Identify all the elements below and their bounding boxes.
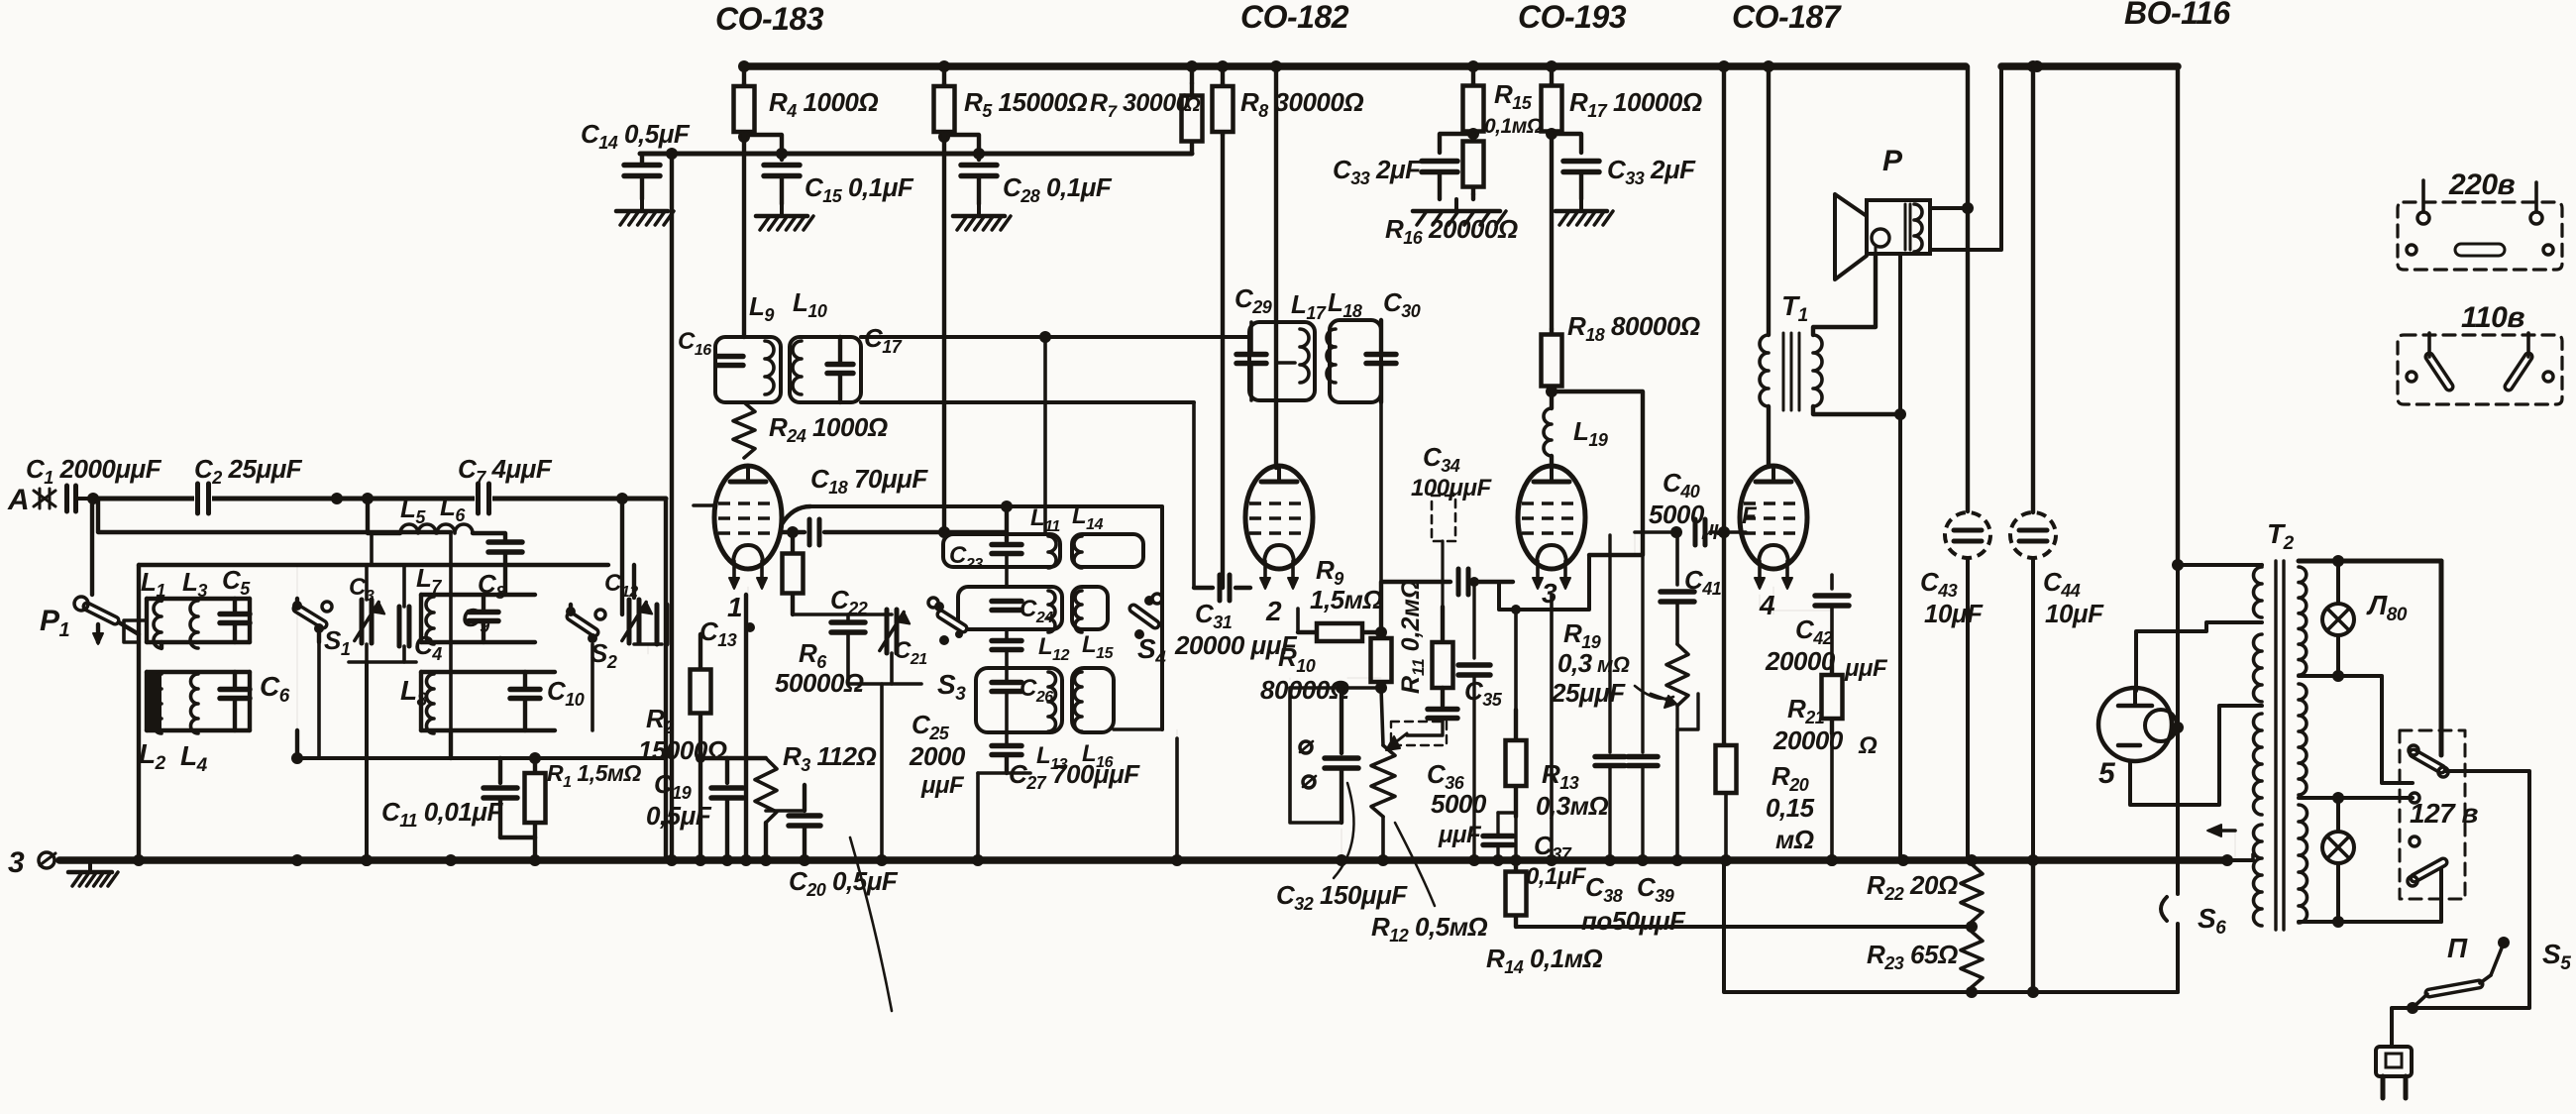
capacitor C34 coupling bbox=[1458, 569, 1513, 595]
wire top B+ bus bbox=[744, 62, 1966, 70]
wire antenna bus bbox=[93, 497, 666, 501]
svg-text:R14 0,1мΩ: R14 0,1мΩ bbox=[1486, 944, 1602, 977]
wire 300 rail bbox=[295, 730, 299, 758]
wire sec mid tap bbox=[2299, 792, 2413, 804]
wire C4 stub bbox=[402, 565, 406, 607]
capacitor C30 bbox=[1366, 320, 1396, 402]
svg-text:C2 25μμF: C2 25μμF bbox=[194, 454, 303, 488]
label P1 bbox=[40, 605, 70, 641]
junction bus end bbox=[2221, 854, 2233, 866]
label R9 value bbox=[1310, 585, 1382, 614]
wire pointer C20 bbox=[850, 837, 892, 1011]
junction bus x340 bbox=[331, 493, 343, 504]
svg-text:3: 3 bbox=[8, 846, 25, 879]
wire L2 tank top rail bbox=[147, 670, 250, 674]
label C17 bbox=[864, 323, 903, 357]
svg-text:15000Ω: 15000Ω bbox=[638, 735, 727, 765]
resistor R5 bbox=[934, 83, 955, 135]
label L2 bbox=[139, 738, 166, 774]
label T2 bbox=[2267, 518, 2295, 554]
inductor L11 bbox=[1048, 536, 1056, 568]
resistor R16 bbox=[1463, 134, 1484, 194]
capacitor C2 bbox=[194, 482, 212, 515]
wire L1 tank top rail bbox=[147, 597, 250, 601]
inductor L6 bbox=[437, 524, 473, 533]
wire T1 sec bottom bbox=[1813, 406, 1900, 414]
junction line3 bbox=[1966, 986, 2039, 998]
resistor R12 zigzag bbox=[1371, 688, 1395, 860]
capacitor C28 bbox=[961, 148, 997, 204]
wire heater line3 bbox=[1724, 860, 2178, 992]
wire C41 to bus bbox=[1675, 729, 1679, 860]
label C21 bbox=[894, 637, 927, 668]
wire bias rail bbox=[1290, 682, 1387, 694]
transformer T2 secondary top bbox=[2299, 561, 2307, 675]
svg-text:1: 1 bbox=[727, 592, 742, 622]
junction grid line R6 bbox=[787, 526, 799, 538]
ground C33b bbox=[1556, 199, 1613, 225]
capacitor C43 bbox=[1945, 511, 1990, 860]
junction R18 bottom bbox=[1546, 386, 1557, 397]
wire R4 down to L9 bbox=[742, 135, 746, 337]
svg-text:C28 0,1μF: C28 0,1μF bbox=[1003, 172, 1113, 206]
inductor L13 bbox=[1048, 672, 1056, 731]
label C35 bbox=[1464, 676, 1503, 710]
resistor R2 bbox=[691, 634, 711, 748]
inductor L14 bbox=[1074, 536, 1082, 568]
wire C3 stub bbox=[365, 565, 369, 600]
label R2 value bbox=[638, 735, 727, 765]
wire C22 bottom to bus bbox=[880, 684, 884, 860]
transformer T2 primary bot bbox=[2254, 825, 2263, 926]
junction R2 join bbox=[696, 753, 705, 763]
svg-text:Ω: Ω bbox=[1858, 732, 1878, 759]
loudspeaker P horn bbox=[1835, 194, 1867, 279]
label R4 1000 bbox=[769, 87, 878, 121]
junction top bus bbox=[1546, 60, 1557, 72]
wire tube2 plate tap bbox=[1276, 361, 1295, 365]
label L8 bbox=[400, 675, 428, 711]
label C3 bbox=[349, 574, 375, 605]
capacitor C39 bbox=[1628, 555, 1658, 860]
wire row3 bottom bbox=[1114, 727, 1162, 731]
label CO-183 bbox=[715, 1, 824, 37]
lamp2 lead bbox=[2336, 798, 2340, 831]
tube U4 CO-187 bbox=[1740, 466, 1807, 589]
node coilbox-bus join bbox=[138, 762, 140, 764]
wire tube2 plate rail bbox=[1274, 66, 1278, 468]
inductor L9 tank box bbox=[715, 337, 781, 402]
wire U4 cathode bbox=[1760, 587, 1832, 614]
wire coil box left bbox=[137, 565, 141, 860]
label CO-182 bbox=[1240, 0, 1349, 35]
label R2 bbox=[646, 704, 674, 737]
inductor L5 bbox=[400, 524, 436, 533]
wire R7 feed bbox=[1190, 66, 1194, 83]
ground C15 bbox=[756, 204, 813, 230]
wire coil box top bbox=[139, 563, 608, 567]
label T1 bbox=[1781, 290, 1808, 326]
resistor R23 zigzag bbox=[1961, 932, 1983, 992]
label C19 bbox=[654, 769, 692, 803]
wire C18 on to tanks bbox=[944, 530, 1007, 534]
label S1 bbox=[324, 625, 351, 659]
svg-text:R11 0,2мΩ: R11 0,2мΩ bbox=[1397, 580, 1428, 694]
label C36 bbox=[1427, 759, 1465, 793]
tube U3 CO-193 bbox=[1518, 466, 1585, 589]
transformer T1 secondary bbox=[1813, 335, 1822, 406]
inductor L8 bbox=[421, 672, 434, 733]
label L9 bbox=[749, 291, 774, 325]
svg-text:3: 3 bbox=[1542, 578, 1557, 609]
capacitor C17 bbox=[827, 337, 853, 402]
svg-text:10μF: 10μF bbox=[2045, 599, 2104, 628]
label pin1 bbox=[727, 592, 742, 622]
tube U2 CO-182 bbox=[1245, 466, 1313, 589]
label Л80 bbox=[2366, 590, 2408, 625]
ground C33a/R16 bbox=[1413, 199, 1506, 225]
capacitor C32 bbox=[1325, 688, 1358, 823]
svg-text:по50μμF: по50μμF bbox=[1581, 906, 1686, 936]
svg-text:C33 2μF: C33 2μF bbox=[1333, 155, 1422, 188]
svg-text:100μμF: 100μμF bbox=[1411, 475, 1492, 501]
wire R17 down to R18 bbox=[1550, 134, 1554, 329]
wire ground bus bbox=[59, 856, 2227, 864]
label C2 bbox=[194, 454, 303, 488]
resistor R20 bbox=[1716, 745, 1737, 793]
wire C3 drop to bus bbox=[361, 662, 373, 866]
label R6 bbox=[799, 638, 827, 672]
svg-text:R4 1000Ω: R4 1000Ω bbox=[769, 87, 878, 121]
transformer T1 primary bbox=[1760, 327, 1769, 406]
resistor R13 bbox=[1506, 710, 1527, 817]
svg-text:10μF: 10μF bbox=[1924, 599, 1984, 628]
label R11 rotated bbox=[1397, 580, 1428, 694]
switch S3 bbox=[928, 598, 963, 645]
wire C40 line bbox=[1635, 530, 1676, 534]
label C18 70 bbox=[810, 464, 928, 498]
label pin4 bbox=[1759, 590, 1775, 620]
wire L7 box bottom bbox=[421, 640, 535, 644]
svg-text:μμF: μμF bbox=[920, 772, 965, 799]
junction C40 node bbox=[1718, 526, 1730, 538]
transformer T2 secondary mid bbox=[2299, 684, 2307, 795]
svg-text:F: F bbox=[1742, 502, 1758, 529]
svg-text:μμF: μμF bbox=[1844, 655, 1888, 682]
svg-text:R12 0,5мΩ: R12 0,5мΩ bbox=[1371, 912, 1487, 946]
variable capacitor C21 bbox=[848, 610, 921, 684]
wire R10 tap bbox=[1380, 632, 1382, 644]
dashes pot box bbox=[1391, 722, 1447, 745]
svg-text:0,1мΩ: 0,1мΩ bbox=[1484, 115, 1543, 138]
wire R13 to bus bbox=[1514, 817, 1517, 860]
resistor R4 bbox=[734, 83, 755, 135]
label R17 10000 bbox=[1569, 87, 1702, 121]
capacitor C29 box bbox=[1249, 322, 1315, 400]
capacitor C42 bbox=[1815, 575, 1849, 660]
wire tube5 anode to T2 bbox=[2136, 622, 2262, 691]
junction R5 bottom bbox=[938, 131, 950, 143]
svg-text:4: 4 bbox=[1759, 590, 1775, 620]
label R15 value bbox=[1484, 115, 1543, 138]
transformer T2 primary s3 bbox=[2254, 714, 2263, 815]
svg-text:П: П bbox=[2447, 933, 2468, 963]
inductor L9 bbox=[765, 341, 774, 394]
label П bbox=[2447, 933, 2468, 963]
label R20 bbox=[1771, 761, 1809, 795]
junction bus x628 bbox=[616, 493, 628, 504]
label pin3 bbox=[1542, 578, 1557, 609]
inductor L18 bbox=[1327, 329, 1336, 383]
capacitor C34 trimmer dashed bbox=[1411, 442, 1492, 609]
loudspeaker voice coil bbox=[1872, 229, 1889, 256]
wire pointer R19 bbox=[1635, 686, 1673, 699]
label C40 bbox=[1663, 468, 1700, 501]
pot wiper arrow bbox=[1386, 733, 1407, 750]
transformer T2 core bbox=[2276, 561, 2284, 930]
wire C32 to bus bbox=[1341, 829, 1342, 860]
svg-text:0,1μF: 0,1μF bbox=[1526, 863, 1587, 890]
wire C44 rail lower bbox=[2031, 860, 2035, 992]
svg-text:CO-187: CO-187 bbox=[1732, 0, 1843, 35]
wire lamp2 down bbox=[2336, 864, 2340, 922]
loudspeaker xfmr coil bbox=[1905, 204, 1922, 252]
switch blade bottom bbox=[2408, 862, 2443, 886]
wire U3 to bus bbox=[1550, 595, 1554, 860]
label R5 15000 bbox=[964, 87, 1087, 121]
svg-text:P: P bbox=[1882, 145, 1903, 177]
label R21 value bbox=[1772, 725, 1878, 759]
lamp Л2 bbox=[2322, 832, 2354, 863]
wire L8 box top bbox=[421, 670, 555, 674]
wire left tanks to P1 bbox=[124, 620, 147, 642]
label C15 bbox=[805, 172, 914, 206]
inductor L14 box bbox=[1072, 534, 1143, 567]
label C8 bbox=[478, 569, 505, 603]
label C33a bbox=[1333, 155, 1422, 188]
tube U1 CO-183 bbox=[714, 466, 782, 589]
terminal A bbox=[7, 484, 55, 516]
transformer T2 primary s2 bbox=[2254, 634, 2263, 702]
inductor L15 box bbox=[1072, 587, 1108, 629]
junction R17 bottom bbox=[1546, 128, 1557, 140]
variable capacitor C12 bbox=[622, 600, 652, 643]
label CO-187 bbox=[1732, 0, 1843, 35]
svg-text:Ω: Ω bbox=[1184, 94, 1201, 116]
capacitor C44 bbox=[2010, 512, 2056, 860]
junction top bus bbox=[1217, 60, 1229, 72]
label C16 bbox=[678, 328, 711, 359]
wire R8 feed bbox=[1221, 66, 1225, 83]
resistor R8 bbox=[1213, 83, 1234, 135]
switch contact mid2 bbox=[2410, 836, 2419, 846]
ground C28 bbox=[953, 204, 1011, 230]
wire P1 stub2 bbox=[119, 622, 139, 634]
socket 220 slot bbox=[2407, 244, 2553, 256]
svg-text:0,15: 0,15 bbox=[1766, 793, 1815, 823]
label C37 bbox=[1534, 831, 1572, 864]
label C31 value bbox=[1174, 630, 1298, 660]
svg-text:BO-116: BO-116 bbox=[2124, 0, 2230, 31]
junction L5 drop bbox=[362, 493, 374, 504]
wire L2 tank bottom rail bbox=[147, 728, 250, 732]
resistor R7 bbox=[1182, 83, 1203, 154]
label L19 bbox=[1573, 416, 1608, 450]
wire C12 bottom rail bbox=[634, 644, 662, 654]
label L3 bbox=[182, 567, 207, 601]
capacitor C9 bbox=[469, 595, 498, 642]
label C14 bbox=[581, 119, 691, 153]
capacitor C40 bbox=[1695, 519, 1746, 545]
label C27 bbox=[1009, 759, 1140, 793]
label R10 bbox=[1278, 642, 1316, 676]
label C28 bbox=[1003, 172, 1113, 206]
inductor L10 tank box bbox=[790, 337, 861, 402]
wire S2 lower contact drop bbox=[590, 644, 594, 730]
resistor R6 bbox=[783, 532, 804, 614]
svg-text:R7 30000: R7 30000 bbox=[1090, 89, 1190, 121]
wire tap jog bbox=[2338, 676, 2413, 783]
wire T1 primary rail bbox=[1767, 66, 1771, 335]
label R14 bbox=[1486, 944, 1602, 977]
label L4 bbox=[180, 740, 208, 776]
svg-text:0,3: 0,3 bbox=[1557, 648, 1593, 678]
svg-text:220в: 220в bbox=[2448, 168, 2516, 201]
power plug bbox=[2376, 1047, 2412, 1098]
ground main bbox=[68, 860, 118, 886]
label L6 bbox=[440, 492, 466, 525]
terminal pickup1 bbox=[1300, 741, 1313, 753]
junction top bus bbox=[2031, 60, 2043, 72]
junction C40 right bbox=[1718, 526, 1730, 538]
wire L5 line bbox=[368, 499, 400, 533]
lamp Л80 bbox=[2322, 604, 2354, 635]
svg-text:R3 112Ω: R3 112Ω bbox=[783, 741, 876, 775]
junction R22 bottom bbox=[1966, 921, 1978, 933]
inductor L11 box bbox=[943, 534, 1060, 567]
junction C34-C35 bbox=[1469, 577, 1479, 587]
wire rail570 drop to C12 bbox=[632, 565, 636, 598]
label S3 bbox=[937, 669, 966, 705]
switch S5 dot bbox=[2498, 937, 2510, 948]
switch S4 bbox=[1133, 594, 1162, 639]
wire U1 envelope to bus bbox=[744, 595, 748, 860]
junction screen bus C14 bbox=[666, 148, 678, 160]
wire R5-C28 jog bbox=[944, 135, 979, 160]
label R7 30000 bbox=[1090, 89, 1201, 121]
label L13 L16 bbox=[1036, 740, 1114, 773]
wire S6 rail lower bbox=[2176, 924, 2180, 992]
svg-text:CO-182: CO-182 bbox=[1240, 0, 1349, 35]
wire top bus right segment bbox=[2001, 62, 2178, 70]
wire R1 to bus bbox=[533, 837, 537, 860]
capacitor C11 bbox=[483, 758, 535, 837]
wire common drop left bbox=[296, 565, 298, 758]
label R22 bbox=[1867, 870, 1958, 904]
label R6 value bbox=[775, 668, 864, 698]
wire speaker loop bbox=[1930, 66, 2001, 250]
label C9 bbox=[462, 603, 489, 636]
wire C30 rail down bbox=[1379, 402, 1383, 582]
label L12 L15 bbox=[1038, 631, 1115, 664]
label R15 bbox=[1494, 79, 1533, 113]
label L7 bbox=[416, 563, 442, 597]
wire L10 top out bbox=[861, 335, 1249, 339]
wire node up/right bbox=[1381, 582, 1450, 632]
label C7 bbox=[458, 454, 553, 488]
junction R4 bottom bbox=[738, 131, 750, 143]
inductor L12 bbox=[1048, 591, 1055, 632]
svg-text:5000: 5000 bbox=[1431, 789, 1487, 819]
capacitor C5 bbox=[220, 599, 250, 642]
wire sec bottom bbox=[2299, 916, 2441, 928]
resistor R21 bbox=[1822, 660, 1843, 733]
label R10 value bbox=[1260, 675, 1349, 705]
dashed 127V box bbox=[2400, 730, 2465, 899]
label R1 bbox=[547, 760, 641, 791]
resistor R9 bbox=[1298, 609, 1381, 641]
fuse П bbox=[2413, 946, 2503, 1008]
wire C3C4 bottom rail bbox=[349, 644, 416, 662]
wire R4-C15 jog bbox=[744, 135, 782, 160]
capacitor C4 bbox=[399, 607, 409, 646]
label F grid bbox=[1742, 502, 1758, 529]
label C37 value bbox=[1526, 863, 1587, 890]
inductor L18 box bbox=[1330, 320, 1381, 402]
inductor L12 box bbox=[958, 587, 1062, 629]
capacitor C18 coupling bbox=[782, 519, 944, 545]
capacitor C22 bbox=[831, 614, 865, 684]
wire C20 link bbox=[766, 809, 805, 813]
label CO-193 bbox=[1518, 0, 1627, 35]
wire tube5 cathode to T2 bbox=[2130, 706, 2262, 805]
label C1 bbox=[26, 454, 162, 488]
terminal pickup2 bbox=[1303, 776, 1316, 788]
wire R2 rail bbox=[698, 748, 702, 860]
wire R21 to bus bbox=[1826, 733, 1838, 866]
inductor L2 bbox=[149, 674, 161, 733]
svg-text:25μμF: 25μμF bbox=[1551, 678, 1626, 708]
svg-text:0,5μF: 0,5μF bbox=[646, 801, 712, 831]
wire T1 prim bottom to tube4 bbox=[1767, 406, 1771, 466]
wire S6 rail upper bbox=[2176, 565, 2180, 894]
wire R20 to bus bbox=[1724, 793, 1728, 860]
capacitor C20 bbox=[789, 785, 820, 860]
switch S6 bbox=[2161, 897, 2167, 921]
label R23 bbox=[1867, 940, 1958, 973]
junction top bus bbox=[1718, 60, 1730, 72]
label 110v bbox=[2461, 301, 2524, 334]
socket 220 outline bbox=[2398, 202, 2562, 270]
pot arrow R19 bbox=[1651, 694, 1676, 708]
wire R13 top bbox=[1511, 605, 1521, 710]
svg-text:C20 0,5μF: C20 0,5μF bbox=[789, 866, 899, 900]
label C32 bbox=[1276, 880, 1408, 914]
label C44 bbox=[2043, 567, 2104, 628]
wire heater line2 bbox=[1516, 925, 1972, 929]
label R19 value bbox=[1551, 648, 1630, 708]
wire ground bus joins bbox=[133, 854, 2039, 866]
junction R15 bottom bbox=[1467, 128, 1479, 140]
wire R5 feed bbox=[942, 66, 946, 83]
label R8 30000 bbox=[1240, 87, 1363, 121]
capacitor C19 bbox=[711, 758, 743, 860]
capacitor C16 bbox=[717, 357, 743, 366]
label R18 80000 bbox=[1567, 311, 1700, 345]
label C23 bbox=[949, 542, 983, 573]
wire T1 sec top bbox=[1813, 256, 1876, 335]
svg-text:C18 70μμF: C18 70μμF bbox=[810, 464, 928, 498]
